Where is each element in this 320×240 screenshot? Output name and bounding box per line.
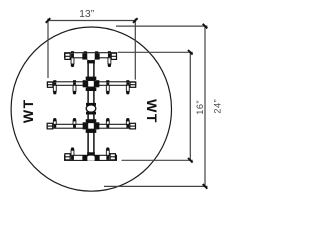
- svg-text:16”: 16”: [195, 100, 205, 115]
- arm 3 pin b shaft: [73, 121, 76, 125]
- dimension 16" line: [189, 52, 191, 160]
- arm 2 pin a shaft: [53, 85, 56, 91]
- arm 3 pin a shaft: [53, 121, 56, 125]
- arm2 crossing box: [88, 80, 95, 87]
- tick 13" right: [133, 18, 138, 23]
- arm3 clamp blob left: [83, 122, 88, 129]
- arm3 collar above: [86, 119, 97, 122]
- tank circle: [11, 27, 171, 191]
- arm 1 left pin nut: [71, 51, 74, 53]
- arm2 clamp blob left: [83, 80, 88, 87]
- arm 2 pin a through-bolt: [53, 82, 56, 84]
- arm 4 right pin through-bolt: [106, 156, 109, 160]
- arm2 collar below: [86, 88, 97, 92]
- arm 4 right pin shaft: [106, 150, 109, 155]
- arm1 mast cap: [87, 61, 95, 64]
- arm 3 left end bracket: [47, 123, 53, 129]
- arm 2 pin a nut: [53, 80, 56, 82]
- extension line 16" bottom: [122, 159, 193, 161]
- arm 4 left pin cap: [71, 147, 74, 150]
- arm 2 pin a tip: [53, 91, 56, 94]
- arm 2 left end bracket: [47, 82, 53, 87]
- arm4 clamp blob left: [82, 155, 87, 161]
- arm 4 left pin through-bolt: [71, 156, 74, 160]
- arm 1 left end bracket: [65, 53, 70, 59]
- arm 3 pin c through-bolt: [106, 125, 109, 128]
- dimension 24" line: [204, 26, 206, 186]
- arm 1 left pin tip: [71, 64, 74, 67]
- arm 1 left pin through-bolt: [71, 53, 74, 57]
- dimension 13" line: [48, 20, 135, 22]
- arm1 clamp blob left: [82, 53, 87, 59]
- arm 3 pin d through-bolt: [126, 125, 129, 128]
- arm 2 pin b nut: [73, 80, 76, 82]
- extension line 13" right: [134, 19, 136, 80]
- mast body: [88, 60, 94, 153]
- tick 24" top: [203, 24, 208, 29]
- arm 1 right end bracket: [111, 53, 116, 59]
- svg-text:WT: WT: [144, 99, 160, 124]
- arm1 clamp nub right: [95, 51, 98, 53]
- arm 3 pin d shaft: [126, 121, 129, 125]
- arm 2 pin d shaft: [126, 85, 129, 91]
- arm 3 pin b through-bolt: [73, 125, 76, 128]
- arm4 mast cap: [87, 152, 95, 155]
- coupling oval: [86, 105, 96, 112]
- arm1 saddle slant right: [92, 59, 94, 61]
- arm 3 right end bracket: [130, 123, 136, 129]
- extension line 13" left: [47, 19, 49, 79]
- extension line 24" top: [116, 25, 208, 27]
- arm4 saddle slant left: [87, 155, 89, 157]
- arm1 saddle slant left: [87, 59, 89, 61]
- arm 1 right pin nut: [108, 51, 111, 53]
- svg-text:24”: 24”: [213, 99, 223, 114]
- arm 1 right pin through-bolt: [108, 53, 111, 57]
- arm 2 pin c nut: [106, 80, 109, 82]
- arm3 collar below: [86, 130, 97, 133]
- tick 13" left: [46, 18, 51, 23]
- arm 2 pin b tip: [73, 91, 76, 94]
- arm 4 left pin shaft: [71, 150, 74, 155]
- extension line 16" top: [118, 51, 193, 53]
- arm4 saddle slant right: [92, 155, 94, 157]
- svg-text:13”: 13”: [79, 8, 95, 20]
- arm3 clamp blob right: [95, 122, 100, 129]
- arm 2 pin b shaft: [73, 85, 76, 91]
- arm1 clamp blob right: [95, 53, 100, 59]
- arm 4 rail: [65, 155, 117, 160]
- arm 3 pin b cap: [73, 118, 76, 121]
- arm 3 rail: [47, 124, 135, 128]
- arm 2 pin c tip: [106, 91, 109, 94]
- tick 16" top: [188, 50, 193, 55]
- arm2 collar above: [86, 77, 97, 80]
- arm 2 pin d nut: [126, 80, 129, 82]
- svg-text:WT: WT: [20, 98, 36, 123]
- arm 3 pin c shaft: [106, 121, 109, 125]
- tick 16" bottom: [188, 158, 193, 163]
- arm 3 pin d cap: [126, 118, 129, 121]
- arm1 clamp white gap: [87, 54, 94, 60]
- arm 1 left pin shaft: [71, 58, 74, 64]
- arm3 crossing box: [88, 123, 95, 130]
- extension line 24" bottom: [104, 185, 208, 187]
- arm 2 pin d tip: [126, 91, 129, 94]
- arm 2 rail: [47, 82, 135, 86]
- arm 2 pin c through-bolt: [106, 82, 109, 84]
- coupling collar below: [86, 112, 96, 115]
- arm 1 right pin tip: [108, 64, 111, 67]
- arm 2 right end bracket: [130, 82, 136, 87]
- arm2 clamp blob right: [95, 80, 100, 87]
- arm 3 pin a cap: [53, 118, 56, 121]
- arm 3 pin a through-bolt: [53, 125, 56, 128]
- arm4 clamp white gap: [87, 156, 94, 161]
- arm 2 pin b through-bolt: [73, 82, 76, 84]
- tick 24" bottom: [203, 184, 208, 189]
- arm 3 pin c cap: [106, 118, 109, 121]
- arm4 clamp blob right: [95, 155, 100, 161]
- arm 2 pin d through-bolt: [126, 82, 129, 84]
- arm1 clamp nub left: [84, 51, 87, 53]
- coupling collar above: [86, 103, 96, 106]
- arm 4 left end bracket: [65, 154, 70, 160]
- arm 1 rail: [65, 53, 117, 58]
- arm 4 right pin cap: [106, 147, 109, 150]
- arm 1 right pin shaft: [108, 58, 111, 64]
- arm 4 right end bracket: [110, 154, 115, 160]
- arm 2 pin c shaft: [106, 85, 109, 91]
